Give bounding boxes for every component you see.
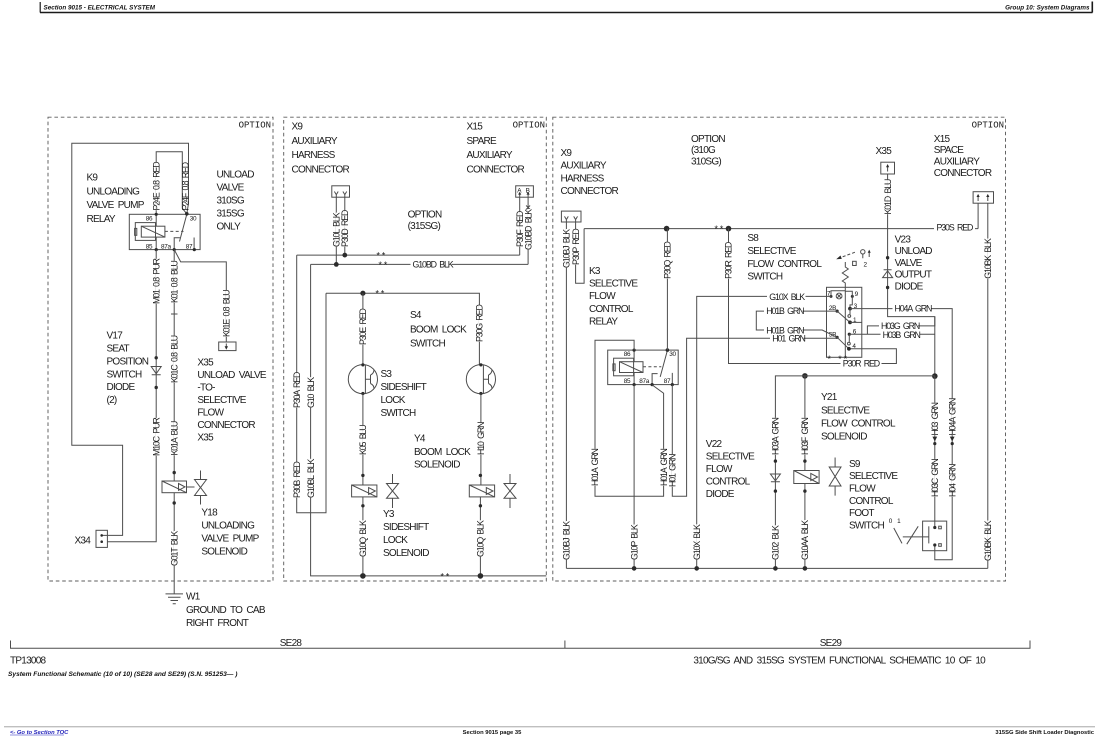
svg-text:(315SG): (315SG) (408, 221, 441, 232)
svg-text:UNLOAD VALVE: UNLOAD VALVE (197, 370, 266, 381)
svg-text:X15: X15 (934, 134, 951, 145)
svg-text:FLOW CONTROL: FLOW CONTROL (821, 419, 896, 430)
svg-text:Group 10: System Diagrams: Group 10: System Diagrams (1005, 5, 1090, 12)
svg-text:K9: K9 (87, 173, 99, 184)
svg-text:UNLOAD: UNLOAD (895, 246, 933, 257)
svg-text:BOOM LOCK: BOOM LOCK (414, 447, 471, 458)
svg-text:P24F 0.8 RED: P24F 0.8 RED (181, 162, 191, 210)
svg-text:VALVE: VALVE (217, 183, 245, 194)
svg-text:SOLENOID: SOLENOID (201, 547, 247, 558)
svg-text:VALVE: VALVE (895, 258, 923, 269)
svg-text:X35: X35 (876, 146, 893, 157)
svg-text:-TO-: -TO- (197, 383, 215, 394)
svg-text:Y3: Y3 (383, 509, 395, 520)
svg-text:H04A GRN: H04A GRN (947, 398, 957, 435)
svg-text:UNLOADING: UNLOADING (201, 521, 255, 532)
svg-text:H03 GRN: H03 GRN (930, 402, 940, 435)
svg-text:SELECTIVE: SELECTIVE (706, 451, 755, 462)
svg-text:M10C PUR: M10C PUR (151, 418, 161, 456)
svg-text:RIGHT FRONT: RIGHT FRONT (186, 618, 249, 629)
svg-text:SWITCH: SWITCH (849, 520, 884, 531)
svg-text:GROUND TO CAB: GROUND TO CAB (186, 605, 266, 616)
svg-text:System Functional Schematic (1: System Functional Schematic (10 of 10) (… (8, 671, 237, 678)
svg-text:FLOW: FLOW (706, 464, 733, 475)
svg-text:S8: S8 (747, 233, 759, 244)
svg-text:G102 BLK: G102 BLK (771, 525, 781, 560)
svg-text:AUXILIARY: AUXILIARY (561, 161, 607, 172)
svg-text:SELECTIVE: SELECTIVE (589, 279, 638, 290)
svg-text:P24E 0.8 RED: P24E 0.8 RED (151, 162, 161, 211)
svg-text:LOCK: LOCK (381, 395, 406, 406)
svg-text:H03C GRN: H03C GRN (930, 459, 940, 497)
svg-text:310SG): 310SG) (691, 157, 721, 168)
svg-text:30: 30 (190, 216, 197, 223)
svg-text:G10BD BLK: G10BD BLK (523, 209, 533, 250)
svg-text:P30R RED: P30R RED (724, 242, 734, 279)
svg-text:CONNECTOR: CONNECTOR (197, 420, 255, 431)
svg-text:ONLY: ONLY (217, 222, 242, 233)
svg-text:H04A GRN: H04A GRN (895, 304, 932, 314)
svg-text:K01D BLU: K01D BLU (883, 179, 893, 215)
svg-text:DIODE: DIODE (706, 489, 735, 500)
svg-text:P30Q RED: P30Q RED (663, 241, 673, 278)
svg-text:SWITCH: SWITCH (747, 272, 782, 283)
svg-text:FLOW: FLOW (849, 484, 876, 495)
svg-text:SOLENOID: SOLENOID (821, 431, 867, 442)
svg-text:UNLOADING: UNLOADING (87, 186, 141, 197)
svg-text:G10BK BLK: G10BK BLK (983, 238, 993, 279)
svg-text:**: ** (440, 572, 451, 582)
svg-text:SIDESHIFT: SIDESHIFT (383, 522, 429, 533)
svg-text:V17: V17 (107, 331, 124, 342)
svg-text:SEAT: SEAT (107, 344, 130, 355)
svg-text:SE29: SE29 (820, 638, 843, 649)
svg-text:H03A GRN: H03A GRN (771, 418, 781, 455)
svg-text:SWITCH: SWITCH (381, 408, 416, 419)
svg-text:SWITCH: SWITCH (410, 338, 445, 349)
svg-text:TP13008: TP13008 (10, 656, 47, 667)
svg-text:X9: X9 (561, 148, 573, 159)
svg-text:(310G: (310G (691, 145, 716, 156)
svg-text:X9: X9 (292, 122, 304, 133)
svg-text:P30D RED: P30D RED (340, 210, 350, 247)
svg-text:G10 BLK: G10 BLK (306, 377, 316, 408)
svg-text:K01C 0.8 BLU: K01C 0.8 BLU (169, 335, 179, 383)
svg-text:K01E 0.8 BLU: K01E 0.8 BLU (222, 290, 232, 337)
svg-text:HARNESS: HARNESS (561, 173, 605, 184)
svg-text:X15: X15 (467, 122, 484, 133)
svg-text:Y4: Y4 (414, 434, 426, 445)
svg-text:H03B GRN: H03B GRN (883, 330, 921, 340)
svg-text:SWITCH: SWITCH (107, 369, 142, 380)
svg-text:315SG Side Shift Loader Diagno: 315SG Side Shift Loader Diagnostic (995, 730, 1094, 736)
svg-text:H01A GRN: H01A GRN (590, 449, 600, 486)
svg-text:UNLOAD: UNLOAD (217, 170, 255, 181)
svg-text:OPTION: OPTION (408, 210, 442, 221)
svg-text:H10 GRN: H10 GRN (476, 422, 486, 455)
svg-text:86: 86 (146, 216, 153, 223)
svg-text:K01 0.8 BLU: K01 0.8 BLU (169, 260, 179, 303)
svg-text:P30E RED: P30E RED (358, 309, 368, 345)
svg-text:87a: 87a (639, 378, 650, 385)
svg-text:Y21: Y21 (821, 392, 838, 403)
svg-text:30: 30 (669, 351, 676, 358)
svg-text:X35: X35 (197, 433, 214, 444)
svg-text:Section 9015 - ELECTRICAL SYST: Section 9015 - ELECTRICAL SYSTEM (44, 5, 156, 12)
svg-text:K01A BLU: K01A BLU (169, 421, 179, 456)
svg-text:SELECTIVE: SELECTIVE (849, 471, 898, 482)
svg-text:G10Q BLK: G10Q BLK (476, 520, 486, 557)
svg-text:POSITION: POSITION (107, 357, 149, 368)
svg-text:G10BL BLK: G10BL BLK (306, 459, 316, 498)
svg-text:G10P BLK: G10P BLK (629, 524, 639, 560)
svg-text:P30G RED: P30G RED (475, 305, 485, 342)
svg-text:S9: S9 (849, 459, 861, 470)
svg-text:87a: 87a (161, 244, 172, 251)
svg-text:G10BD BLK: G10BD BLK (413, 260, 454, 270)
svg-text:**: ** (375, 290, 386, 300)
svg-text:85: 85 (146, 244, 153, 251)
svg-text:**: ** (378, 261, 389, 271)
svg-text:P30B RED: P30B RED (292, 462, 302, 498)
svg-text:G10X BLK: G10X BLK (769, 292, 805, 302)
svg-text:CONTROL: CONTROL (849, 496, 894, 507)
svg-text:V22: V22 (706, 439, 723, 450)
svg-text:S4: S4 (410, 310, 422, 321)
svg-text:FLOW: FLOW (197, 408, 224, 419)
svg-text:H03F GRN: H03F GRN (800, 418, 810, 455)
svg-text:OPTION: OPTION (513, 121, 545, 131)
svg-text:OPTION: OPTION (239, 121, 271, 131)
svg-text:RELAY: RELAY (87, 214, 116, 225)
svg-text:M01 0.8 PUR: M01 0.8 PUR (151, 259, 161, 304)
svg-text:SIDESHIFT: SIDESHIFT (381, 382, 427, 393)
svg-text:87: 87 (186, 244, 193, 251)
svg-text:P30R RED: P30R RED (843, 359, 880, 369)
svg-text:SPACE: SPACE (934, 145, 964, 156)
svg-text:CONNECTOR: CONNECTOR (561, 186, 619, 197)
svg-text:310G/SG AND 315SG SYSTEM FUNCT: 310G/SG AND 315SG SYSTEM FUNCTIONAL SCHE… (693, 656, 986, 667)
svg-text:G10BK BLK: G10BK BLK (983, 520, 993, 561)
svg-text:SOLENOID: SOLENOID (414, 460, 460, 471)
svg-text:AUXILIARY: AUXILIARY (934, 157, 980, 168)
svg-text:CONNECTOR: CONNECTOR (934, 168, 992, 179)
svg-text:Section 9015 page 35: Section 9015 page 35 (463, 730, 522, 736)
svg-text:BOOM LOCK: BOOM LOCK (410, 324, 467, 335)
svg-text:X34: X34 (75, 536, 92, 547)
svg-text:HARNESS: HARNESS (292, 150, 336, 161)
svg-text:OPTION: OPTION (972, 121, 1004, 131)
svg-text:CONTROL: CONTROL (589, 304, 634, 315)
svg-text:315SG: 315SG (217, 209, 245, 220)
svg-text:H01B GRN: H01B GRN (766, 306, 804, 316)
svg-text:FLOW: FLOW (589, 291, 616, 302)
svg-text:SELECTIVE: SELECTIVE (821, 406, 870, 417)
svg-text:* **: * ** (827, 355, 849, 365)
svg-text:AUXILIARY: AUXILIARY (467, 150, 513, 161)
svg-text:DIODE: DIODE (895, 281, 924, 292)
svg-text:VALVE PUMP: VALVE PUMP (201, 534, 259, 545)
svg-text:G10Q BLK: G10Q BLK (358, 520, 368, 557)
svg-text:CONNECTOR: CONNECTOR (467, 164, 525, 175)
svg-text:H01B GRN: H01B GRN (766, 325, 804, 335)
svg-text:Y18: Y18 (201, 508, 218, 519)
svg-text:X35: X35 (197, 358, 214, 369)
svg-text:OPTION: OPTION (691, 134, 725, 145)
svg-text:87: 87 (664, 378, 671, 385)
svg-text:85: 85 (624, 378, 631, 385)
svg-text:P30S RED: P30S RED (937, 223, 973, 233)
svg-text:SPARE: SPARE (467, 136, 497, 147)
svg-text:310SG: 310SG (217, 196, 245, 207)
svg-text:DIODE: DIODE (107, 382, 136, 393)
svg-text:G10X BLK: G10X BLK (692, 524, 702, 560)
svg-text:G10BJ BLK: G10BJ BLK (562, 521, 572, 560)
svg-text:CONNECTOR: CONNECTOR (292, 164, 350, 175)
svg-text:S3: S3 (381, 369, 393, 380)
svg-text:W1: W1 (186, 592, 201, 603)
svg-text:V23: V23 (895, 234, 912, 245)
svg-text:FLOW CONTROL: FLOW CONTROL (747, 259, 822, 270)
svg-text:G01T BLK: G01T BLK (169, 531, 179, 566)
svg-text:86: 86 (624, 351, 631, 358)
svg-text:H04 GRN: H04 GRN (947, 464, 957, 497)
svg-text:SOLENOID: SOLENOID (383, 548, 429, 559)
svg-text:K05 BLU: K05 BLU (358, 425, 368, 455)
svg-text:SELECTIVE: SELECTIVE (747, 246, 796, 257)
svg-text:VALVE PUMP: VALVE PUMP (87, 200, 145, 211)
svg-text:**: ** (714, 225, 725, 235)
svg-text:H01 GRN: H01 GRN (668, 454, 678, 487)
svg-text:FOOT: FOOT (849, 508, 874, 519)
svg-text:RELAY: RELAY (589, 317, 618, 328)
svg-text:G10AA BLK: G10AA BLK (800, 520, 810, 560)
svg-text:OUTPUT: OUTPUT (895, 270, 932, 281)
svg-text:K3: K3 (589, 266, 601, 277)
svg-text:SELECTIVE: SELECTIVE (197, 395, 246, 406)
svg-text:P30A RED: P30A RED (292, 372, 302, 408)
svg-text:CONTROL: CONTROL (706, 476, 751, 487)
svg-text:P30P RED: P30P RED (571, 229, 581, 265)
svg-text:LOCK: LOCK (383, 535, 408, 546)
svg-text:SE28: SE28 (280, 638, 303, 649)
svg-text:(2): (2) (107, 395, 117, 406)
svg-text:AUXILIARY: AUXILIARY (292, 136, 338, 147)
